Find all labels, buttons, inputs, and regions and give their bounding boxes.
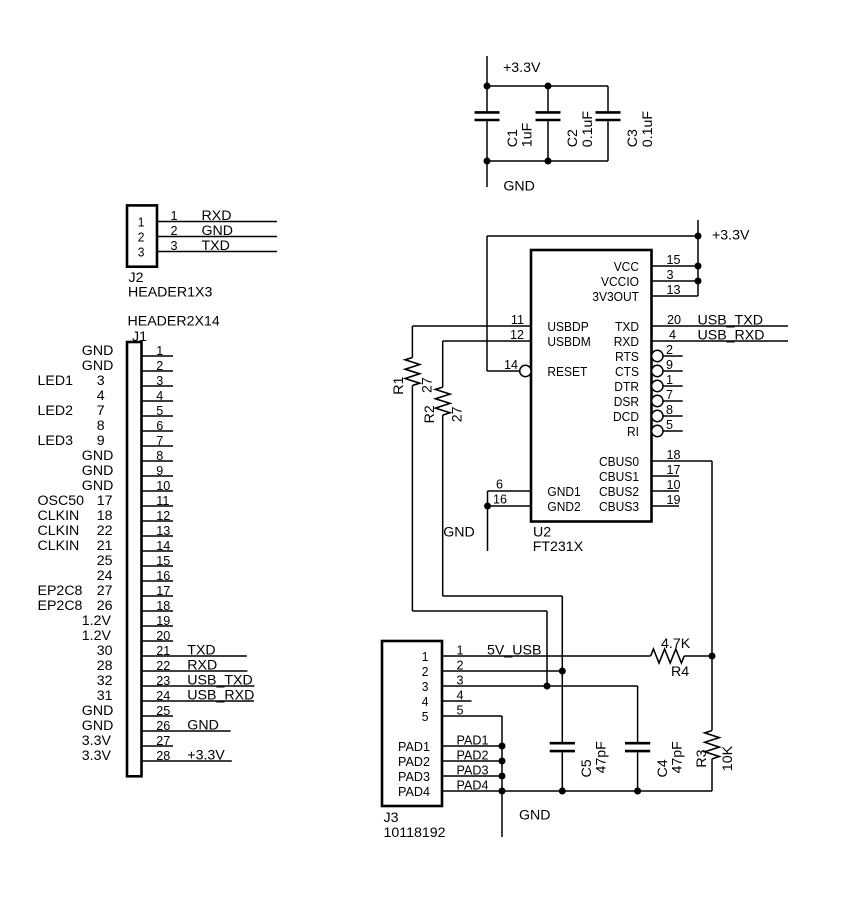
junction bbox=[695, 233, 702, 240]
svg-text:1: 1 bbox=[457, 644, 464, 658]
junction bbox=[484, 83, 491, 90]
wire J1 pin 4 bbox=[142, 389, 174, 403]
svg-text:16: 16 bbox=[493, 493, 507, 507]
svg-text:4: 4 bbox=[97, 388, 105, 404]
svg-text:GND: GND bbox=[503, 179, 535, 195]
junction bbox=[695, 278, 702, 285]
connector J2 HEADER1X3 bbox=[127, 205, 212, 300]
svg-text:8: 8 bbox=[156, 449, 163, 463]
svg-text:3: 3 bbox=[156, 374, 163, 388]
svg-text:5V_USB: 5V_USB bbox=[487, 643, 541, 659]
svg-text:USB_RXD: USB_RXD bbox=[698, 328, 765, 344]
svg-text:32: 32 bbox=[97, 673, 113, 689]
svg-text:EP2C8: EP2C8 bbox=[38, 583, 83, 599]
svg-text:RI: RI bbox=[627, 424, 639, 439]
svg-text:19: 19 bbox=[667, 493, 681, 507]
junction bbox=[545, 158, 552, 165]
svg-text:3: 3 bbox=[457, 674, 464, 688]
svg-text:1uF: 1uF bbox=[520, 122, 536, 147]
svg-text:1.2V: 1.2V bbox=[82, 628, 112, 644]
svg-text:RXD: RXD bbox=[202, 208, 232, 224]
wire U2 pin 14 RESET bubble bbox=[504, 358, 531, 377]
svg-text:HEADER1X3: HEADER1X3 bbox=[128, 285, 212, 301]
svg-text:FT231X: FT231X bbox=[533, 539, 584, 555]
svg-text:20: 20 bbox=[667, 313, 681, 327]
svg-text:USB_RXD: USB_RXD bbox=[187, 688, 254, 704]
svg-text:GND: GND bbox=[82, 463, 114, 479]
svg-text:26: 26 bbox=[97, 598, 113, 614]
wire U2 pin 7 DSR (bubble) bbox=[652, 388, 683, 407]
wire +3.3V rail bbox=[487, 85, 608, 87]
wire J1 pin 11 bbox=[142, 494, 174, 508]
wire GND rail bbox=[487, 160, 608, 162]
capacitor C2 bbox=[536, 86, 597, 161]
svg-text:27: 27 bbox=[156, 734, 170, 748]
power +3.3V (U2) bbox=[698, 220, 750, 296]
wire U2 pin 20 TXD (USB_TXD) bbox=[652, 313, 789, 329]
svg-text:16: 16 bbox=[156, 569, 170, 583]
svg-text:8: 8 bbox=[666, 403, 673, 417]
svg-text:3V3OUT: 3V3OUT bbox=[592, 289, 639, 304]
wire J1 pin 6 bbox=[142, 419, 174, 433]
svg-text:13: 13 bbox=[156, 524, 170, 538]
svg-text:21: 21 bbox=[156, 644, 170, 658]
svg-text:3.3V: 3.3V bbox=[82, 733, 112, 749]
svg-text:GND: GND bbox=[82, 478, 114, 494]
svg-text:CLKIN: CLKIN bbox=[38, 523, 80, 539]
wire J1 pin 24 (USB_RXD) bbox=[142, 688, 255, 704]
svg-text:1: 1 bbox=[156, 344, 163, 358]
svg-text:USB_TXD: USB_TXD bbox=[187, 673, 252, 689]
svg-text:HEADER2X14: HEADER2X14 bbox=[128, 313, 220, 329]
svg-text:14: 14 bbox=[156, 539, 170, 553]
wire J3 pin 5 bbox=[442, 704, 502, 792]
svg-text:1: 1 bbox=[422, 649, 429, 664]
wire U2 pin 8 DCD (bubble) bbox=[652, 403, 683, 422]
svg-text:26: 26 bbox=[156, 719, 170, 733]
junction bbox=[559, 788, 566, 795]
svg-text:PAD3: PAD3 bbox=[398, 769, 430, 784]
resistor R2 27 bbox=[422, 341, 465, 596]
wire J1 pin 8 bbox=[142, 449, 174, 463]
wire J1 pin 22 (RXD) bbox=[142, 658, 248, 674]
wire J3 pin 3 (USB D+) bbox=[442, 674, 638, 688]
svg-text:PAD3: PAD3 bbox=[457, 764, 489, 778]
svg-text:27: 27 bbox=[449, 406, 465, 422]
wire J2 pin 2 (GND) bbox=[157, 223, 277, 239]
svg-text:25: 25 bbox=[156, 704, 170, 718]
resistor R4 4.7K bbox=[651, 636, 712, 680]
svg-text:4: 4 bbox=[156, 389, 163, 403]
svg-text:GND: GND bbox=[82, 718, 114, 734]
svg-text:24: 24 bbox=[156, 689, 170, 703]
svg-text:GND2: GND2 bbox=[547, 499, 580, 514]
wire U2 pin 5 RI (bubble) bbox=[652, 418, 683, 437]
svg-text:0.1uF: 0.1uF bbox=[640, 111, 656, 148]
svg-text:USB_TXD: USB_TXD bbox=[698, 313, 763, 329]
svg-text:PAD2: PAD2 bbox=[398, 754, 430, 769]
svg-text:DCD: DCD bbox=[613, 409, 639, 424]
wire U2 pin 3 VCCIO bbox=[652, 268, 699, 282]
svg-text:25: 25 bbox=[97, 553, 113, 569]
svg-text:RTS: RTS bbox=[615, 349, 639, 364]
IC U2 FT231X bbox=[531, 250, 652, 555]
wire U2 pin 13 3V3OUT bbox=[652, 283, 699, 297]
wire U2 pin 2 RTS (bubble) bbox=[652, 343, 683, 362]
wire J1 pin 9 bbox=[142, 464, 174, 478]
svg-text:PAD1: PAD1 bbox=[457, 734, 489, 748]
wire R1 to USB D+ bbox=[412, 611, 547, 686]
svg-text:2: 2 bbox=[171, 224, 178, 238]
svg-text:22: 22 bbox=[156, 659, 170, 673]
svg-text:6: 6 bbox=[496, 478, 503, 492]
svg-text:C1: C1 bbox=[505, 129, 521, 147]
svg-text:7: 7 bbox=[666, 388, 673, 402]
svg-text:5: 5 bbox=[666, 418, 673, 432]
svg-text:11: 11 bbox=[511, 313, 524, 327]
resistor R3 10K bbox=[694, 656, 736, 791]
svg-text:4: 4 bbox=[422, 694, 429, 709]
wire J1 pin 13 bbox=[142, 524, 174, 538]
capacitor C3 bbox=[596, 86, 656, 161]
svg-text:3.3V: 3.3V bbox=[82, 748, 112, 764]
resistor R1 27 bbox=[391, 326, 435, 611]
svg-text:+3.3V: +3.3V bbox=[503, 60, 541, 76]
junction bbox=[499, 758, 506, 765]
svg-text:5: 5 bbox=[156, 404, 163, 418]
svg-text:4: 4 bbox=[669, 328, 676, 342]
svg-text:17: 17 bbox=[156, 584, 170, 598]
svg-text:R3: R3 bbox=[694, 749, 710, 767]
wire J3 pin 1 (5V_USB) bbox=[442, 643, 651, 659]
svg-text:RESET: RESET bbox=[547, 364, 587, 379]
svg-text:OSC50: OSC50 bbox=[38, 493, 85, 509]
svg-text:CBUS0: CBUS0 bbox=[599, 454, 639, 469]
svg-text:1: 1 bbox=[138, 214, 145, 229]
svg-text:VCC: VCC bbox=[614, 259, 640, 274]
svg-text:18: 18 bbox=[97, 508, 113, 524]
svg-text:9: 9 bbox=[156, 464, 163, 478]
wire J3 PAD2 bbox=[442, 749, 502, 763]
wire J1 pin 17 bbox=[142, 584, 174, 598]
junction bbox=[499, 773, 506, 780]
wire J1 pin 28 (+3.3V) bbox=[142, 748, 232, 764]
svg-text:TXD: TXD bbox=[615, 319, 639, 334]
wire U2 pin 10 CBUS2 bbox=[652, 478, 681, 492]
svg-text:3: 3 bbox=[138, 244, 145, 259]
svg-text:CLKIN: CLKIN bbox=[38, 508, 80, 524]
svg-text:GND: GND bbox=[82, 448, 114, 464]
wire J1 pin 12 bbox=[142, 509, 174, 523]
ground GND (J3) bbox=[502, 791, 551, 837]
svg-text:19: 19 bbox=[156, 614, 170, 628]
wire J1 pin 15 bbox=[142, 554, 174, 568]
svg-text:1: 1 bbox=[666, 373, 673, 387]
svg-text:R2: R2 bbox=[422, 405, 438, 423]
wire U2 pin 4 RXD (USB_RXD) bbox=[652, 328, 789, 344]
capacitor C4 47pF bbox=[625, 686, 685, 791]
svg-text:DSR: DSR bbox=[614, 394, 639, 409]
wire U2 pin 16 GND2 bbox=[488, 493, 532, 507]
svg-text:11: 11 bbox=[156, 494, 169, 508]
svg-text:2: 2 bbox=[422, 664, 429, 679]
svg-text:+3.3V: +3.3V bbox=[712, 228, 750, 244]
svg-text:2: 2 bbox=[138, 229, 145, 244]
wire U2 pin 6 GND1 bbox=[488, 478, 532, 492]
svg-text:GND: GND bbox=[443, 525, 475, 541]
svg-text:18: 18 bbox=[667, 448, 681, 462]
svg-text:12: 12 bbox=[510, 328, 524, 342]
wire U2 pin 1 DTR (bubble) bbox=[652, 373, 683, 392]
junction bbox=[695, 263, 702, 270]
wire J1 pin 23 (USB_TXD) bbox=[142, 673, 255, 689]
svg-text:CBUS3: CBUS3 bbox=[599, 499, 639, 514]
svg-text:GND: GND bbox=[202, 223, 234, 239]
svg-text:CTS: CTS bbox=[615, 364, 639, 379]
wire J1 pin 1 bbox=[142, 344, 174, 358]
wire J1 pin 21 (TXD) bbox=[142, 643, 247, 659]
wire J3 PAD4 / GND rail bbox=[442, 779, 712, 793]
svg-text:18: 18 bbox=[156, 599, 170, 613]
wire J3 pin 2 (USB D-) bbox=[442, 659, 562, 673]
svg-text:7: 7 bbox=[97, 403, 105, 419]
capacitor C1 bbox=[475, 86, 536, 161]
svg-text:GND: GND bbox=[519, 808, 551, 824]
svg-text:47pF: 47pF bbox=[594, 741, 610, 774]
wire J1 pin 7 bbox=[142, 434, 174, 448]
wire RESET to +3.3V rail bbox=[487, 236, 698, 371]
connector J1 HEADER2X14 bbox=[38, 313, 220, 776]
svg-text:GND: GND bbox=[187, 718, 219, 734]
wire U2 pin 17 CBUS1 bbox=[652, 463, 681, 477]
svg-text:2: 2 bbox=[457, 659, 464, 673]
svg-text:C2: C2 bbox=[565, 129, 581, 147]
junction bbox=[709, 653, 716, 660]
svg-text:RXD: RXD bbox=[614, 334, 639, 349]
svg-text:PAD4: PAD4 bbox=[457, 779, 489, 793]
svg-text:31: 31 bbox=[97, 688, 113, 704]
wire J3 PAD3 bbox=[442, 764, 502, 778]
svg-text:CBUS1: CBUS1 bbox=[599, 469, 639, 484]
svg-text:3: 3 bbox=[422, 679, 429, 694]
svg-text:DTR: DTR bbox=[614, 379, 639, 394]
svg-text:24: 24 bbox=[97, 568, 113, 584]
wire J1 pin 18 bbox=[142, 599, 174, 613]
svg-text:VCCIO: VCCIO bbox=[601, 274, 639, 289]
wire U2 pin 19 CBUS3 bbox=[652, 493, 681, 507]
svg-text:13: 13 bbox=[667, 283, 681, 297]
wire J3 pin 4 bbox=[442, 689, 472, 703]
wire J1 pin 26 (GND) bbox=[142, 718, 231, 734]
svg-text:12: 12 bbox=[156, 509, 170, 523]
svg-text:LED2: LED2 bbox=[38, 403, 74, 419]
svg-text:3: 3 bbox=[97, 373, 105, 389]
svg-text:C3: C3 bbox=[625, 129, 641, 147]
svg-text:GND: GND bbox=[82, 358, 114, 374]
svg-text:9: 9 bbox=[97, 433, 105, 449]
svg-text:GND: GND bbox=[82, 703, 114, 719]
svg-text:23: 23 bbox=[156, 674, 170, 688]
svg-text:R1: R1 bbox=[391, 376, 407, 394]
wire J1 pin 2 bbox=[142, 359, 174, 373]
wire J1 pin 5 bbox=[142, 404, 174, 418]
wire J2 pin 1 (RXD) bbox=[157, 208, 277, 224]
svg-text:1: 1 bbox=[171, 209, 178, 223]
svg-text:15: 15 bbox=[156, 554, 170, 568]
svg-text:USBDM: USBDM bbox=[547, 334, 590, 349]
junction bbox=[499, 743, 506, 750]
svg-text:0.1uF: 0.1uF bbox=[580, 111, 596, 148]
svg-text:10: 10 bbox=[156, 479, 170, 493]
ground GND (U2) bbox=[443, 491, 487, 551]
svg-text:4: 4 bbox=[457, 689, 464, 703]
svg-text:PAD1: PAD1 bbox=[398, 739, 430, 754]
svg-text:PAD4: PAD4 bbox=[398, 784, 430, 799]
svg-text:28: 28 bbox=[97, 658, 113, 674]
wire J1 pin 27 bbox=[142, 734, 174, 748]
svg-text:5: 5 bbox=[422, 709, 429, 724]
wire J3 PAD1 bbox=[442, 734, 502, 748]
wire R2 to USB D- bbox=[443, 596, 563, 671]
wire U2 pin 11 USBDP bbox=[412, 313, 531, 327]
svg-text:30: 30 bbox=[97, 643, 113, 659]
svg-text:C5: C5 bbox=[579, 759, 595, 777]
svg-text:TXD: TXD bbox=[202, 238, 230, 254]
svg-text:20: 20 bbox=[156, 629, 170, 643]
svg-text:EP2C8: EP2C8 bbox=[38, 598, 83, 614]
svg-text:17: 17 bbox=[97, 493, 113, 509]
junction bbox=[484, 158, 491, 165]
svg-text:+3.3V: +3.3V bbox=[187, 748, 225, 764]
svg-text:22: 22 bbox=[97, 523, 113, 539]
svg-text:CBUS2: CBUS2 bbox=[599, 484, 639, 499]
svg-text:9: 9 bbox=[666, 358, 673, 372]
svg-text:CLKIN: CLKIN bbox=[38, 538, 80, 554]
ground GND (top) bbox=[487, 161, 535, 195]
svg-text:USBDP: USBDP bbox=[547, 319, 588, 334]
wire J1 pin 10 bbox=[142, 479, 174, 493]
svg-text:17: 17 bbox=[667, 463, 681, 477]
wire J1 pin 3 bbox=[142, 374, 174, 388]
svg-text:8: 8 bbox=[97, 418, 105, 434]
wire J1 pin 19 bbox=[142, 614, 174, 628]
junction bbox=[544, 683, 551, 690]
svg-text:2: 2 bbox=[156, 359, 163, 373]
wire U2 pin 15 VCC bbox=[652, 253, 699, 267]
junction bbox=[634, 788, 641, 795]
svg-text:10: 10 bbox=[667, 478, 681, 492]
svg-text:15: 15 bbox=[667, 253, 681, 267]
wire J1 pin 14 bbox=[142, 539, 174, 553]
svg-text:RXD: RXD bbox=[187, 658, 217, 674]
wire J1 pin 25 bbox=[142, 704, 174, 718]
wire U2 pin 9 CTS (bubble) bbox=[652, 358, 683, 377]
wire J1 pin 16 bbox=[142, 569, 174, 583]
wire J1 pin 20 bbox=[142, 629, 174, 643]
svg-text:47pF: 47pF bbox=[669, 741, 685, 774]
junction bbox=[484, 503, 491, 510]
svg-text:4.7K: 4.7K bbox=[661, 636, 691, 652]
svg-text:2: 2 bbox=[666, 343, 673, 357]
wire U2 pin 12 USBDM bbox=[443, 328, 531, 342]
capacitor C5 47pF bbox=[550, 671, 610, 791]
svg-text:14: 14 bbox=[504, 358, 518, 372]
junction bbox=[545, 83, 552, 90]
wire J2 pin 3 (TXD) bbox=[157, 238, 277, 254]
svg-text:LED3: LED3 bbox=[38, 433, 74, 449]
junction bbox=[499, 788, 506, 795]
svg-text:3: 3 bbox=[667, 268, 674, 282]
wire U2 pin 18 CBUS0 bbox=[652, 448, 713, 656]
svg-text:LED1: LED1 bbox=[38, 373, 74, 389]
svg-text:21: 21 bbox=[97, 538, 113, 554]
svg-text:TXD: TXD bbox=[187, 643, 215, 659]
svg-text:6: 6 bbox=[156, 419, 163, 433]
svg-text:28: 28 bbox=[156, 749, 170, 763]
svg-text:10118192: 10118192 bbox=[384, 825, 446, 841]
svg-text:5: 5 bbox=[457, 704, 464, 718]
svg-text:1.2V: 1.2V bbox=[82, 613, 112, 629]
power +3.3V (top) bbox=[487, 56, 541, 86]
svg-text:3: 3 bbox=[171, 239, 178, 253]
svg-text:27: 27 bbox=[97, 583, 113, 599]
junction bbox=[559, 668, 566, 675]
svg-text:10K: 10K bbox=[720, 745, 736, 771]
svg-text:PAD2: PAD2 bbox=[457, 749, 489, 763]
connector J3 10118192 bbox=[382, 641, 446, 841]
svg-text:GND1: GND1 bbox=[547, 484, 580, 499]
svg-text:7: 7 bbox=[156, 434, 163, 448]
svg-text:27: 27 bbox=[419, 377, 435, 393]
svg-text:J3: J3 bbox=[384, 810, 399, 826]
svg-text:GND: GND bbox=[82, 343, 114, 359]
svg-text:R4: R4 bbox=[671, 664, 689, 680]
